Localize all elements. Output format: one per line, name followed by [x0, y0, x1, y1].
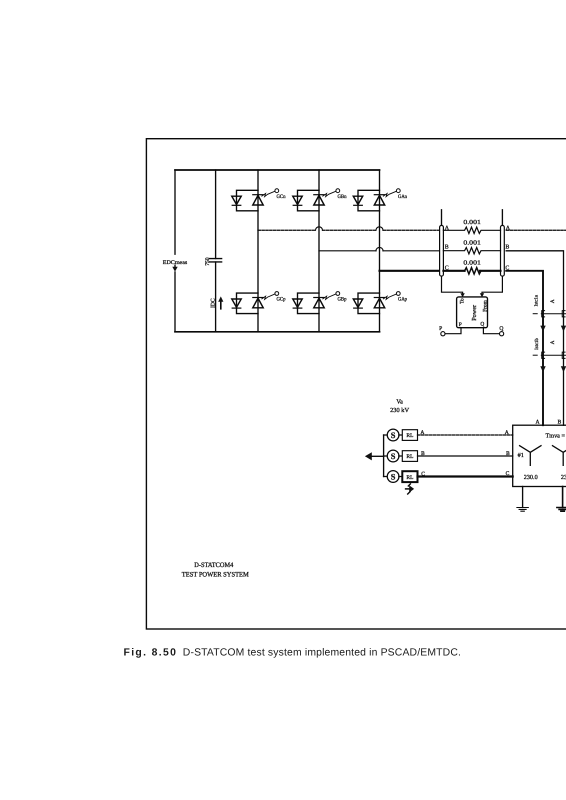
power meter block U1 [457, 297, 488, 328]
svg-text:B: B [445, 245, 449, 251]
impedance RL phase B [402, 451, 417, 462]
svg-text:S: S [391, 452, 396, 461]
wire hop over leg2 [316, 227, 323, 230]
voltmeter arrow down (EDC) [174, 265, 176, 268]
svg-text:GAn: GAn [398, 194, 407, 200]
source Vc phase C [387, 471, 399, 483]
svg-text:0.001: 0.001 [463, 239, 481, 246]
svg-text:From: From [482, 299, 488, 311]
IDC arrow up [220, 301, 222, 309]
svg-text:0.001: 0.001 [463, 219, 481, 226]
svg-text:GBn: GBn [338, 194, 347, 200]
wire: phase C down to transformer (thick) [506, 271, 543, 425]
output P terminal [445, 328, 461, 334]
svg-text:RL: RL [406, 475, 414, 481]
source Va phase A [387, 429, 399, 441]
svg-text:A: A [550, 299, 556, 303]
svg-text:Va: Va [396, 398, 403, 405]
wire hop over leg3 [376, 247, 383, 250]
GTO valve GAp with antiparallel diode (bottom, leg 3) [353, 292, 407, 314]
GTO valve GBp with antiparallel diode (bottom, leg 2) [293, 292, 347, 314]
svg-text:RL: RL [406, 454, 414, 460]
svg-text:RL: RL [406, 433, 414, 439]
bus bar left (capsule) [441, 210, 443, 226]
svg-text:TEST POWER SYSTEM: TEST POWER SYSTEM [182, 572, 249, 579]
bus bar right (capsule) [501, 210, 503, 226]
wire: source common [383, 435, 385, 477]
svg-text:230 kV: 230 kV [390, 407, 410, 414]
ground (left, under transformer) [522, 487, 524, 508]
wire: leg C vertical [257, 170, 259, 332]
wire: DC top bus [175, 169, 380, 171]
GTO valve GBn with antiparallel diode (top, leg 2) [293, 189, 347, 211]
svg-text:S: S [391, 472, 396, 481]
svg-text:230.0: 230.0 [561, 474, 566, 481]
svg-text:230.0: 230.0 [524, 474, 538, 481]
svg-text:C: C [421, 471, 425, 477]
svg-text:IDC: IDC [210, 298, 216, 308]
svg-text:Istc1b: Istc1b [534, 338, 540, 350]
resistor RC 0.001 (thick leads) [443, 270, 464, 272]
source Vb phase B [387, 450, 399, 462]
wires source to RL [399, 435, 402, 477]
GTO valve GAn with antiparallel diode (top, leg 3) [353, 189, 407, 211]
wire hop over leg3 [376, 227, 383, 230]
wire: phase B down to transformer [506, 251, 563, 425]
output Q terminal [483, 328, 499, 334]
wire: DC bottom bus [175, 331, 380, 333]
svg-text:Q: Q [499, 326, 503, 332]
impedance RL phase A [402, 430, 417, 441]
svg-text:Fig. 8.50D-STATCOM test system: Fig. 8.50D-STATCOM test system implement… [124, 647, 462, 658]
resistor RB 0.001 [443, 248, 500, 254]
svg-text:Istc1a: Istc1a [534, 294, 540, 306]
svg-text:Tmva =: Tmva = [546, 432, 566, 439]
wire: right bar to power meter "From" [482, 276, 502, 294]
capacitor C (DC link) upper wire [215, 170, 217, 259]
wire: phase C output from leg3 (thick) [380, 270, 440, 272]
current arrows (set 2) [540, 366, 545, 372]
reference arrow (left) [365, 452, 372, 460]
svg-text:GCn: GCn [277, 194, 286, 200]
GTO valve GCp with antiparallel diode (bottom, leg 1) [232, 292, 286, 314]
svg-text:P: P [439, 326, 442, 332]
svg-text:B: B [506, 451, 510, 457]
svg-text:D-STATCOM4: D-STATCOM4 [194, 562, 234, 569]
wire: EDC measurement branch (lower) [174, 272, 176, 332]
svg-text:GCp: GCp [277, 297, 286, 303]
wire: phase B output from leg2 [319, 250, 440, 252]
winding Y secondary (clipped) [553, 446, 566, 466]
svg-text:GBp: GBp [338, 297, 347, 303]
wire: phase C source to transformer (thick) [418, 475, 513, 477]
measurement arrow (right, below RL C) [406, 488, 410, 490]
svg-text:S: S [391, 431, 396, 440]
svg-text:B: B [505, 245, 509, 251]
svg-text:A: A [505, 430, 509, 436]
figure frame [146, 139, 566, 629]
svg-text:Power: Power [471, 305, 478, 321]
capacitor C lower wire [215, 262, 217, 332]
svg-text:C: C [506, 471, 510, 477]
svg-text:A: A [535, 419, 539, 425]
GTO valve GCn with antiparallel diode (top, leg 1) [232, 189, 286, 211]
svg-text:750: 750 [205, 257, 211, 266]
svg-text:B: B [421, 451, 425, 457]
svg-text:#1: #1 [518, 452, 524, 459]
wire: phase B source to transformer [418, 455, 513, 457]
wire: phase A source to transformer (dashed) [418, 434, 513, 436]
wire: phase A to right edge (dashed) [506, 229, 566, 231]
svg-text:To: To [459, 298, 465, 304]
svg-text:A: A [550, 340, 556, 344]
ground (right, under transformer) [562, 487, 564, 508]
wire: left bar to power meter "To" [442, 276, 463, 294]
ammeter Istc1b tap [533, 354, 537, 356]
svg-text:A: A [420, 430, 424, 436]
ammeter Istc1a tap [533, 313, 537, 315]
current arrows (set 1) [540, 326, 545, 332]
wire: leg B vertical [318, 170, 320, 332]
capacitor C plates [209, 259, 221, 262]
impedance RL phase C (bold) [402, 471, 417, 482]
wire: EDC measurement branch (upper) [174, 170, 176, 254]
wire: phase A output (dashed) from leg1 [258, 229, 316, 231]
transformer T1 box [513, 425, 566, 486]
svg-text:GAp: GAp [398, 297, 407, 303]
resistor RA 0.001 [443, 227, 500, 233]
winding Y primary [520, 446, 541, 466]
svg-text:Q: Q [480, 322, 484, 328]
wire: leg A vertical [379, 170, 381, 332]
svg-text:0.001: 0.001 [463, 260, 481, 267]
